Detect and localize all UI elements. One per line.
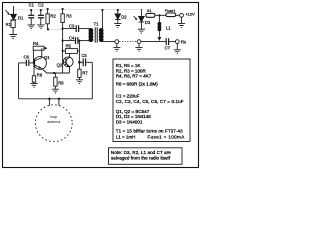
svg-text:R2: R2 xyxy=(51,13,57,18)
supply rail (faint) xyxy=(14,10,146,16)
svg-text:D3 = 1N4001: D3 = 1N4001 xyxy=(116,119,143,124)
wire R2 bottom to node xyxy=(48,28,62,30)
wire S1 to Fuse1 xyxy=(155,14,166,16)
arrow L1 to radio xyxy=(158,37,162,41)
svg-text:C6: C6 xyxy=(24,54,30,59)
node dot C2 top xyxy=(40,9,42,11)
capacitor C6 xyxy=(26,60,33,66)
svg-text:Rx: Rx xyxy=(181,39,187,44)
svg-text:D1: D1 xyxy=(18,16,24,21)
node dot C5 junction xyxy=(78,61,81,64)
ground under R7 xyxy=(76,80,83,84)
svg-text:D2: D2 xyxy=(121,15,127,20)
wire loop to cap xyxy=(19,62,26,64)
node dot T1 rail xyxy=(101,9,103,11)
diode D1 xyxy=(11,6,17,20)
terminal connector J2 xyxy=(137,40,141,44)
capacitor C4 xyxy=(76,37,90,44)
ground under C2 xyxy=(37,25,44,29)
wire J2 to CT xyxy=(141,41,166,43)
svg-text:R7: R7 xyxy=(82,71,88,76)
transistor Q1 xyxy=(34,48,47,73)
parts list box xyxy=(113,59,190,142)
capacitor C3 xyxy=(76,25,89,32)
ground under D2 xyxy=(114,24,121,28)
wire terminal to ground xyxy=(181,17,183,23)
svg-text:L1 = 1mH: L1 = 1mH xyxy=(116,134,136,139)
node dot D2 top xyxy=(117,9,119,11)
svg-text:Fuse1 = 100mA: Fuse1 = 100mA xyxy=(148,134,185,139)
ground under C1 xyxy=(28,25,35,29)
node dot L1 top xyxy=(158,14,160,16)
svg-text:C3: C3 xyxy=(69,24,75,29)
capacitor C2 xyxy=(38,10,44,25)
wire Fuse1 to +12V terminal xyxy=(176,14,180,16)
resistor R2 xyxy=(46,9,49,29)
inductor L1 xyxy=(158,15,162,37)
node dot loop left terminal xyxy=(48,98,50,100)
antenna arrow at D1 xyxy=(5,10,9,15)
terminal Rx xyxy=(175,40,179,44)
resistor R6 xyxy=(32,76,35,82)
transformer T1 xyxy=(89,27,104,42)
capacitor C1 xyxy=(28,10,34,25)
svg-text:C1 = 220uF: C1 = 220uF xyxy=(116,93,140,98)
wire node to C3 xyxy=(63,28,76,30)
svg-text:Note: D3, R2, L1 and CT are: Note: D3, R2, L1 and CT are xyxy=(111,150,171,155)
wire connector stub to ground xyxy=(116,44,118,48)
loop antenna (dashed circle) xyxy=(35,105,72,142)
switch/fuse S1 body xyxy=(146,13,155,17)
svg-text:+12V: +12V xyxy=(185,11,195,16)
wire R3 down to Q2 base (vertical bus x=63) xyxy=(62,23,64,74)
wire R6 to ground xyxy=(33,82,35,83)
note text xyxy=(111,150,171,161)
wire connector stub to ground xyxy=(138,44,140,48)
ground under R1 xyxy=(9,35,17,39)
svg-text:S1: S1 xyxy=(147,9,152,13)
ground under R6 xyxy=(30,83,37,87)
capacitor C5 xyxy=(79,58,92,66)
svg-text:T1 = 15 bifilar turns on FT37-: T1 = 15 bifilar turns on FT37-43 xyxy=(116,128,183,133)
wire R5 right vertical xyxy=(78,41,80,63)
diode D3 xyxy=(139,9,145,29)
node dot Q1 base xyxy=(33,62,35,64)
node dot C1 top xyxy=(30,9,32,11)
terminal +12V xyxy=(180,13,184,17)
cable dotted run xyxy=(119,41,136,43)
ground under D3 xyxy=(138,29,145,33)
svg-text:CT: CT xyxy=(165,45,171,50)
svg-text:R6: R6 xyxy=(37,73,43,78)
node dot C3 tap xyxy=(62,28,64,30)
resistor R4 xyxy=(33,46,47,63)
ground under J1 xyxy=(113,47,120,51)
svg-text:C1: C1 xyxy=(29,3,35,8)
arrow at D3 xyxy=(134,16,138,20)
wire loop stubs xyxy=(49,99,59,106)
terminal connector J1 xyxy=(115,40,119,44)
node dot C4 tap xyxy=(62,40,64,42)
resistor R3 xyxy=(61,9,64,23)
resistor R1 xyxy=(11,20,15,27)
wire C5 down to common xyxy=(91,62,93,99)
svg-text:R1: R1 xyxy=(6,22,12,27)
svg-text:C2, C3, C4, C5, C6, C7 = 0.1uF: C2, C3, C4, C5, C6, C7 = 0.1uF xyxy=(116,99,184,104)
wire Rx to ground xyxy=(176,44,178,50)
svg-text:R4, R6, R7 = 4K7: R4, R6, R7 = 4K7 xyxy=(116,74,152,79)
node dot R5 tap xyxy=(62,50,64,52)
svg-text:salvaged from the radio itself: salvaged from the radio itself xyxy=(111,156,171,161)
svg-text:Q1: Q1 xyxy=(44,55,50,60)
ground under R8 xyxy=(52,89,59,93)
wire R1 to ground xyxy=(12,28,14,35)
node dot R2 top xyxy=(47,8,49,10)
svg-text:R8: R8 xyxy=(58,80,64,85)
svg-text:L1: L1 xyxy=(166,25,171,30)
resistor R5 xyxy=(63,49,80,54)
svg-text:Fuse1: Fuse1 xyxy=(165,9,176,13)
svg-text:R4: R4 xyxy=(33,41,39,46)
node dot R2 bottom xyxy=(47,28,49,30)
svg-text:Q2: Q2 xyxy=(57,62,63,67)
note box xyxy=(109,148,183,165)
wire T1 secondary bottom to connector xyxy=(102,41,114,43)
svg-text:R5: R5 xyxy=(66,43,72,48)
border frame xyxy=(3,3,199,168)
svg-text:loop: loop xyxy=(50,115,57,119)
fuse Fuse1 body xyxy=(166,13,176,17)
node dot R3 top xyxy=(62,8,64,10)
resistor R7 xyxy=(78,62,81,79)
svg-text:T1: T1 xyxy=(94,21,100,26)
wire Q1 emitter to Q2 emitter xyxy=(47,72,70,74)
ground under Rx xyxy=(174,50,181,54)
ground under +12V xyxy=(178,24,185,28)
svg-text:C5: C5 xyxy=(81,53,87,58)
wire base to R6 xyxy=(33,63,35,76)
svg-text:D3: D3 xyxy=(145,20,151,25)
svg-text:antenna: antenna xyxy=(47,120,60,124)
diode D2 xyxy=(115,10,121,23)
svg-text:C2: C2 xyxy=(38,3,44,8)
wire T1 primary top to rail xyxy=(101,10,103,29)
parts list text xyxy=(116,63,185,139)
svg-text:C4: C4 xyxy=(69,36,75,41)
node dot R8 top xyxy=(53,72,55,74)
svg-text:R3: R3 xyxy=(66,13,72,18)
capacitor CT xyxy=(166,38,175,45)
resistor R8 xyxy=(54,73,57,89)
ground under J2 xyxy=(135,47,142,51)
wire bottom common xyxy=(19,98,93,100)
wire loop left vertical xyxy=(18,63,20,99)
node dot R4 right / Q1 collector xyxy=(44,47,46,49)
svg-text:R8 = 680R (2x 1.8M): R8 = 680R (2x 1.8M) xyxy=(116,82,158,87)
transistor Q2 xyxy=(63,53,74,73)
wire node to C4 xyxy=(63,40,75,42)
node dot on C4 wire xyxy=(78,40,80,42)
node dot loop right terminal xyxy=(58,98,60,100)
